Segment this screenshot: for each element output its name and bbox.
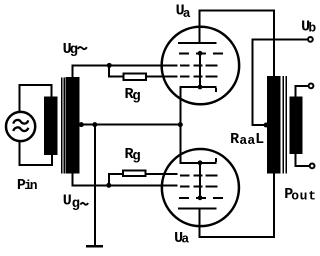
terminal Pout top — [309, 84, 314, 89]
wire: Ub horizontal — [252, 38, 309, 40]
AC source tilde 2 — [13, 127, 28, 131]
wire: V2 anode to T2 bottom — [199, 236, 276, 238]
tube V1 envelope — [162, 27, 240, 105]
svg-text:g: g — [70, 42, 78, 58]
wire: Rg1 riser — [108, 66, 110, 78]
label Ug~ (top) — [63, 41, 87, 58]
wire: bottom-left horizontal — [19, 164, 53, 166]
wire: to Pout bottom terminal — [295, 165, 310, 167]
svg-text:t: t — [308, 189, 316, 204]
svg-text:L: L — [255, 131, 264, 148]
AC source tilde 1 — [13, 120, 28, 124]
svg-text:a: a — [181, 232, 189, 247]
terminal Ub — [308, 37, 313, 42]
tube V1 grid row 1 — [179, 52, 189, 54]
wire: ground drop — [94, 125, 96, 246]
svg-text:a: a — [239, 133, 247, 148]
tube V2 grid tie bar — [199, 163, 201, 198]
node: top grid junction — [107, 63, 112, 68]
tube V1 anode — [178, 42, 217, 44]
tube V2 cathode right stub — [215, 158, 217, 162]
svg-text:g: g — [132, 89, 140, 105]
wire: T1 secondary top lead — [72, 65, 74, 78]
svg-text:g: g — [72, 196, 80, 212]
svg-text:o: o — [291, 189, 299, 204]
svg-text:a: a — [183, 6, 191, 21]
transformer T1 primary winding — [44, 97, 57, 156]
transformer T1 core — [61, 78, 63, 174]
tube V1 grid row 2 — [180, 65, 189, 67]
label Rg (top) — [125, 86, 141, 105]
tube V1 grid row 3 — [180, 76, 189, 78]
wire: V2 cathode left leg — [179, 125, 181, 163]
tube V1 grid tie bar — [199, 53, 201, 87]
tube V2 grid row 1 — [180, 174, 189, 176]
transformer T2 core — [282, 76, 284, 174]
svg-text:g: g — [132, 149, 140, 165]
wire: source bottom lead — [19, 141, 21, 166]
label Ub — [301, 19, 316, 36]
tube V2 grid row 2 — [180, 185, 189, 187]
node: ground junction — [92, 122, 97, 127]
transformer T2 primary winding — [267, 76, 281, 174]
label Pout — [284, 186, 316, 204]
resistor Rg1 — [123, 73, 145, 80]
wire: cathode bus (center tap to cathodes) — [79, 124, 181, 126]
terminal Pout bottom — [310, 164, 315, 169]
label RaaL — [230, 131, 264, 148]
wire: T2 primary bottom riser — [273, 174, 275, 239]
label Ua (bottom) — [174, 230, 189, 247]
tube V1 cathode — [179, 86, 216, 88]
node: bottom grid junction — [106, 183, 111, 188]
resistor Rg2 — [123, 171, 146, 177]
wire: from Rg1 right — [146, 75, 178, 77]
svg-text:U: U — [63, 193, 72, 210]
wire: V2 anode lead — [199, 210, 201, 239]
wire: T2 center tap — [252, 124, 268, 126]
svg-text:b: b — [308, 21, 316, 36]
wire: T2 primary top riser — [273, 10, 275, 77]
wire: T1 secondary bottom lead — [71, 174, 73, 187]
wire: from T1 primary bottom — [51, 155, 53, 166]
label Ug~ (bottom) — [63, 193, 88, 212]
tube V2 cathode — [179, 162, 216, 164]
wire: T2 secondary top lead — [295, 85, 297, 97]
wire: V1 cathode left leg — [179, 88, 181, 125]
wire: grid wire top (node to grid of V1) — [72, 65, 178, 67]
label Rg (bottom) — [125, 146, 141, 165]
wire: to Pout top terminal — [295, 85, 309, 87]
wire: V1 anode to T2 top — [199, 10, 276, 12]
node: center-tap junction — [79, 122, 84, 127]
wire: into T1 primary top — [51, 84, 53, 97]
tube V2 envelope — [162, 149, 239, 226]
svg-text:R: R — [230, 131, 239, 148]
ground — [86, 245, 103, 248]
node: V1 grid tie top — [198, 51, 203, 56]
tube V2 anode — [178, 208, 217, 210]
node: V2 grid tie bottom — [198, 195, 203, 200]
wire: top-left horizontal — [19, 84, 53, 86]
label Pin — [17, 177, 38, 194]
wire: to Rg2 left — [108, 173, 123, 175]
node: T2 center tap junction — [264, 123, 269, 128]
label Ua (top) — [176, 2, 191, 21]
node: cathode junction — [178, 122, 183, 127]
tube V1 cathode right stub — [215, 88, 217, 92]
svg-text:n: n — [30, 178, 38, 193]
wire: from Rg2 right — [146, 173, 178, 175]
transformer T1 secondary winding — [66, 77, 80, 174]
wire: T2 secondary bottom lead — [295, 154, 297, 167]
wire: grid wire bottom (node to grid of V2) — [71, 184, 177, 186]
node: V1 grid tie bottom — [198, 85, 203, 90]
svg-text:u: u — [300, 189, 308, 204]
AC source Pin — [6, 112, 35, 141]
wire: Ub riser — [252, 38, 254, 126]
node: V2 grid tie top — [198, 160, 203, 165]
tube V2 grid row 3 — [179, 197, 189, 199]
transformer T2 secondary winding — [289, 97, 302, 154]
wire: Rg2 riser — [108, 174, 110, 187]
wire: V1 anode lead — [199, 11, 201, 43]
wire: to Rg1 left — [108, 75, 123, 77]
wire: source top lead — [19, 84, 21, 112]
